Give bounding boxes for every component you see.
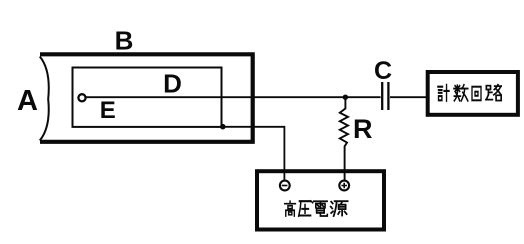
svg-text:A: A <box>17 85 38 117</box>
svg-text:D: D <box>163 69 182 99</box>
svg-text:E: E <box>100 97 116 124</box>
svg-text:R: R <box>353 114 373 144</box>
svg-text:C: C <box>374 57 392 85</box>
svg-text:B: B <box>115 26 134 56</box>
